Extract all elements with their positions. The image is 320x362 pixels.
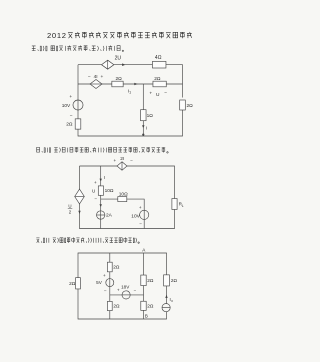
svg-text:+: + <box>69 95 72 100</box>
svg-text:5V: 5V <box>96 280 103 285</box>
svg-text:L: L <box>182 204 184 208</box>
svg-text:2Ω: 2Ω <box>171 278 178 283</box>
svg-text:−: − <box>134 288 137 293</box>
svg-text:+: + <box>117 288 120 293</box>
svg-text:10Ω: 10Ω <box>119 192 128 198</box>
svg-text:10Ω: 10Ω <box>105 188 114 194</box>
svg-text:10V: 10V <box>131 213 140 219</box>
svg-text:2Ω: 2Ω <box>66 122 73 128</box>
svg-text:B: B <box>145 313 148 318</box>
svg-text:I: I <box>146 125 147 130</box>
svg-text:2Ω: 2Ω <box>147 304 154 309</box>
svg-text:U: U <box>156 92 160 98</box>
svg-text:−: − <box>139 221 142 226</box>
svg-text:10V: 10V <box>62 103 71 109</box>
svg-text:+: + <box>139 205 142 210</box>
svg-text:1Ω: 1Ω <box>147 113 154 119</box>
svg-text:2A: 2A <box>106 213 113 219</box>
svg-text:U: U <box>68 204 71 209</box>
svg-text:I: I <box>104 175 105 180</box>
svg-text:2Ω: 2Ω <box>154 76 161 82</box>
svg-text:+: + <box>94 180 97 185</box>
svg-text:+: + <box>103 273 106 278</box>
svg-text:U: U <box>92 188 95 193</box>
svg-text:2Ω: 2Ω <box>147 278 154 283</box>
svg-text:−: − <box>94 196 97 201</box>
svg-text:+: + <box>149 92 152 97</box>
svg-text:+: + <box>114 158 117 163</box>
svg-text:2Ω: 2Ω <box>69 281 76 286</box>
svg-text:2I: 2I <box>120 156 124 162</box>
svg-text:−: − <box>104 288 107 293</box>
svg-text:1: 1 <box>129 90 131 94</box>
svg-text:2Ω: 2Ω <box>113 304 120 309</box>
svg-text:2Ω: 2Ω <box>113 265 120 270</box>
svg-text:− 4I +: − 4I + <box>88 74 104 80</box>
svg-text:4Ω: 4Ω <box>155 55 162 61</box>
svg-text:−: − <box>70 114 73 119</box>
svg-text:18V: 18V <box>121 285 130 290</box>
svg-text:2Ω: 2Ω <box>115 76 122 82</box>
svg-text:2012: 2012 <box>47 31 66 40</box>
svg-text:2U: 2U <box>115 55 122 61</box>
svg-text:2Ω: 2Ω <box>186 103 193 109</box>
svg-text:−: − <box>164 91 167 96</box>
svg-text:−: − <box>130 158 133 163</box>
